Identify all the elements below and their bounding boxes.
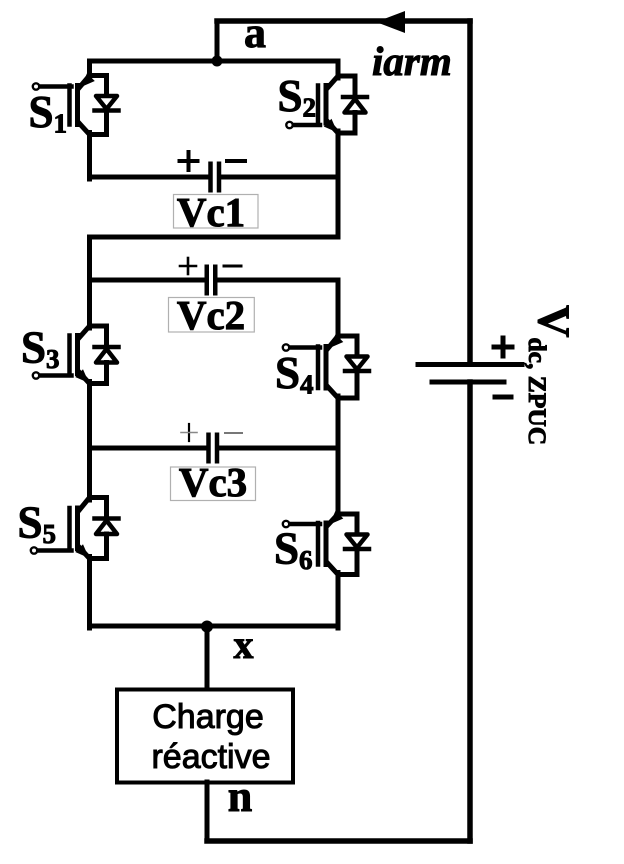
label - of Vc2 [224,265,241,268]
svg-text:x: x [234,622,254,667]
svg-text:S3: S3 [21,323,60,375]
label S5 [18,498,57,550]
label S1 [29,87,68,139]
battery Vdc positive plate [418,362,522,367]
wire Vc3 rail left [90,446,207,451]
wire emitter of S2 [336,131,341,179]
svg-text:n: n [228,772,252,821]
diode of S6 [338,514,369,575]
wire right column (Vc2 to S4) [336,280,341,338]
wire left column (Vc3 to S5) [87,448,92,500]
diode of S3 [90,326,119,384]
svg-text:iarm: iarm [372,38,452,84]
label S3 [21,323,60,375]
wire node a stub [215,21,220,61]
wire rail top of cell 1 [90,59,339,64]
svg-text:a: a [244,8,266,57]
label node a [244,8,266,57]
current arrow (iarm, pointing left) [376,11,405,33]
wire bottom rail (node x) [90,624,339,629]
transistor S4 (IGBT) [283,334,344,398]
svg-text:S2: S2 [278,71,317,123]
node x junction dot [201,621,213,633]
svg-text:S6: S6 [274,524,313,576]
label S6 [274,524,313,576]
load box Charge reactive [117,690,293,783]
wire DC bus right lower [467,382,473,841]
label Vc1 [174,189,259,235]
capacitor C2 (Vc2) [207,267,216,294]
wire cell1 bottom right [222,175,339,180]
wire load to bottom [205,782,210,841]
label iarm [372,38,452,84]
wire Vc2 rail right [218,278,338,283]
wire emitter of S1 [87,133,92,180]
svg-text:S1: S1 [29,87,68,139]
transistor S3 (IGBT) [33,326,90,384]
label + of Vc1 [180,152,198,170]
wire left column upper (rail to S3) [87,237,92,328]
svg-text:S4: S4 [275,348,314,400]
label node n [228,772,252,821]
label Vdc,ZPUC [523,305,579,445]
svg-text:S5: S5 [18,498,57,550]
label Vc3 [171,459,256,505]
diode of S1 [90,76,119,135]
diode of S4 [338,336,369,398]
wire emitter of S6 [336,573,341,629]
svg-text:Charge: Charge [152,698,264,736]
wire cell1 bottom left [90,175,209,180]
wire emitter of S4 [336,396,341,450]
svg-text:Vc3: Vc3 [179,459,247,505]
wire Vc2 rail left [90,278,205,283]
wire emitter of S5 [87,557,92,629]
wire collector of S2 [336,61,341,78]
label node x [234,622,254,667]
wire Vc3 rail right [220,446,338,451]
node a junction dot [212,56,223,67]
transistor S5 (IGBT) [31,498,90,559]
wire collector of S1 [87,61,92,78]
transistor S6 (IGBT) [283,511,344,575]
svg-text:Vc2: Vc2 [177,292,245,338]
battery Vdc negative plate [432,380,504,385]
label - of Vc1 [227,159,245,163]
wire cell1 to cell2 link [336,177,341,237]
capacitor C3 (Vc3) [209,435,218,462]
label + of Vdc [494,338,512,356]
diode of S2 [338,76,367,133]
label S2 [278,71,317,123]
diode of S5 [90,498,119,559]
capacitor C1 (Vc1) [211,164,220,191]
transistor S2 (IGBT) [286,76,338,133]
svg-text:réactive: réactive [151,738,270,776]
wire emitter of S3 [87,382,92,451]
label S4 [275,348,314,400]
label + of Vc2 [180,258,196,274]
svg-text:Vdc, ZPUC: Vdc, ZPUC [523,305,579,445]
wire bottom return [207,838,470,844]
wire top (node a to DC bus) [217,18,470,24]
label - of Vdc [495,395,511,400]
label - of Vc3 [225,432,242,434]
transistor S1 (IGBT) [33,73,95,134]
wire rail mid (cell2 top) [90,235,339,240]
wire right column (Vc3 to S6) [336,448,341,516]
wire node x to load [205,626,210,689]
wire DC bus right upper [467,21,473,364]
label Vc2 [169,292,255,338]
svg-text:Vc1: Vc1 [177,189,245,235]
label + of Vc3 [181,424,197,441]
